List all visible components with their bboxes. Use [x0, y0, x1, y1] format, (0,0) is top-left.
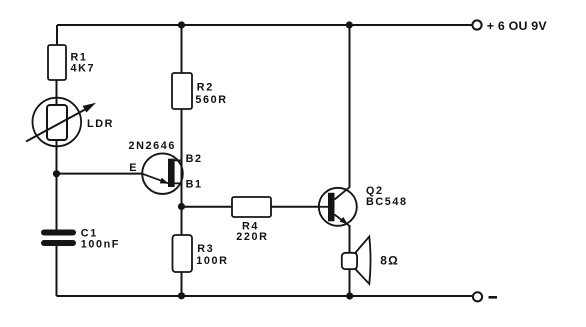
- svg-text:4K7: 4K7: [71, 63, 96, 75]
- svg-text:R3: R3: [197, 243, 214, 255]
- svg-text:BC548: BC548: [366, 196, 408, 208]
- svg-text:8Ω: 8Ω: [380, 253, 399, 267]
- svg-text:100R: 100R: [196, 255, 228, 267]
- svg-text:100nF: 100nF: [81, 239, 120, 251]
- svg-text:E: E: [129, 162, 138, 174]
- svg-text:220R: 220R: [236, 231, 268, 243]
- svg-text:560R: 560R: [195, 94, 227, 106]
- svg-text:2N2646: 2N2646: [129, 140, 176, 152]
- svg-text:B1: B1: [186, 179, 203, 191]
- svg-text:B2: B2: [186, 153, 203, 165]
- svg-text:+ 6 OU 9V: + 6 OU 9V: [487, 19, 548, 33]
- svg-text:LDR: LDR: [87, 118, 114, 130]
- svg-text:C1: C1: [81, 227, 98, 239]
- svg-text:R2: R2: [197, 81, 214, 93]
